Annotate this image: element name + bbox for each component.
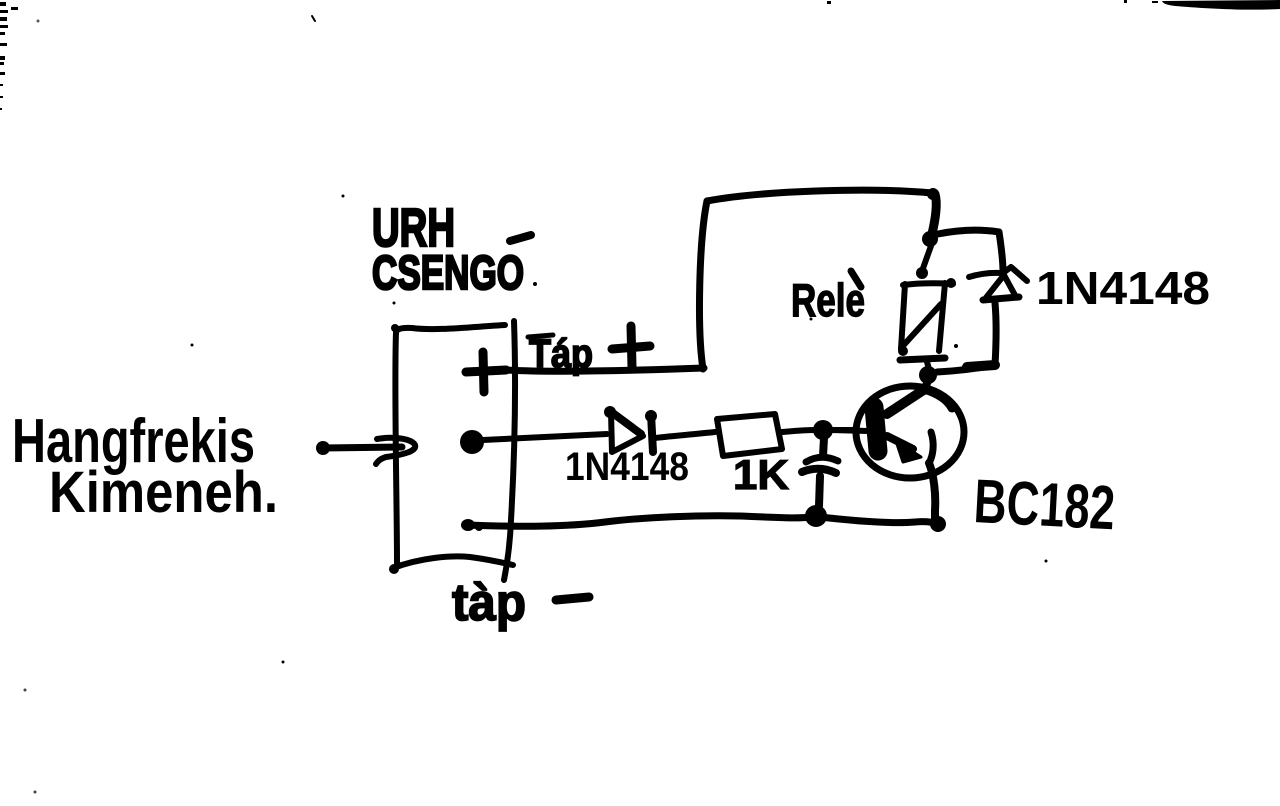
svg-text:1N4148: 1N4148 xyxy=(565,445,689,489)
svg-text:1K: 1K xyxy=(733,451,789,498)
svg-text:Kimeneh.: Kimeneh. xyxy=(49,460,278,525)
svg-text:tàp: tàp xyxy=(452,574,526,632)
svg-text:CSENGO: CSENGO xyxy=(372,247,524,300)
svg-text:BC182: BC182 xyxy=(972,467,1116,543)
svg-text:1N4148: 1N4148 xyxy=(1036,262,1210,314)
svg-text:Táp: Táp xyxy=(529,332,593,376)
